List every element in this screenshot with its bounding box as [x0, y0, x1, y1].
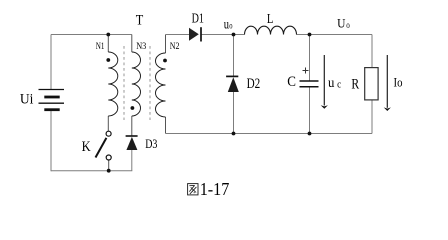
svg-text:D2: D2: [247, 75, 261, 92]
wire N1 top node to N3 top: [108, 34, 132, 36]
capacitor + sign: [303, 68, 309, 74]
diode D2 triangle: [228, 77, 239, 92]
svg-text:K: K: [82, 138, 91, 154]
battery Ui plate long top: [39, 89, 65, 91]
svg-text:C: C: [287, 73, 296, 89]
switch K blade: [96, 138, 107, 158]
wire N2 bottom to output rail: [165, 117, 167, 134]
svg-text:o: o: [229, 21, 232, 31]
diode D1 cathode bar: [200, 27, 202, 41]
N1 polarity dot: [106, 58, 110, 62]
svg-text:1-17: 1-17: [200, 179, 230, 199]
transformer core dashed line right: [149, 46, 151, 120]
capacitor C top plate: [300, 80, 319, 82]
wire D1 cathode to node uo and L: [201, 34, 245, 36]
svg-text:T: T: [136, 11, 144, 27]
N3 polarity dot: [131, 106, 135, 110]
wire output bottom rail: [166, 133, 373, 135]
wire N2 top to D1 anode: [166, 34, 190, 36]
caption glyph 图: [188, 184, 198, 195]
transformer T winding N1: [108, 52, 118, 116]
resistor R body: [365, 68, 378, 100]
diode D1 triangle: [189, 28, 199, 41]
svg-text:R: R: [351, 75, 359, 92]
junction node switch-rail: [107, 169, 111, 173]
svg-text:D1: D1: [192, 10, 204, 26]
junction node uo: [232, 33, 236, 37]
svg-text:U: U: [337, 16, 346, 31]
svg-text:N2: N2: [170, 41, 180, 52]
wire N1 bottom to switch: [107, 116, 109, 131]
wire left vertical lower (battery -): [50, 110, 52, 172]
Io arrow: [386, 55, 388, 108]
junction node C-rail: [308, 132, 312, 136]
svg-text:c: c: [337, 80, 341, 91]
wire bottom-left rail: [51, 170, 132, 172]
svg-text:o: o: [346, 20, 350, 30]
wire N3 bottom to D3 cathode: [131, 116, 133, 136]
wire D3 anode to rail: [131, 150, 133, 171]
svg-text:L: L: [267, 11, 273, 27]
wire N1 stub top: [107, 35, 109, 53]
uc arrow: [323, 55, 325, 106]
wire N2 stub top: [165, 35, 167, 54]
transformer core dashed line left: [123, 46, 125, 120]
transformer T winding N2: [156, 53, 166, 117]
svg-text:N1: N1: [96, 41, 105, 51]
switch K bottom contact: [106, 155, 111, 160]
battery Ui plate short: [44, 96, 59, 99]
svg-text:Ui: Ui: [20, 91, 34, 108]
wire top-left horizontal from battery to N1 top: [51, 34, 108, 36]
wire D2 anode to rail: [233, 92, 235, 134]
wire N3 stub top: [131, 35, 133, 53]
diode D3 cathode bar: [126, 135, 138, 137]
svg-text:u: u: [328, 74, 335, 90]
svg-text:D3: D3: [145, 138, 158, 151]
wire node uo down to D2 cathode: [233, 35, 235, 77]
junction node top-left (N1/N3 tap): [106, 33, 110, 37]
wire R bottom to rail: [371, 100, 373, 134]
wire C bottom plate to rail: [309, 87, 311, 134]
inductor L: [245, 26, 297, 34]
diode D3 triangle: [126, 137, 137, 150]
wire node down to C top plate: [309, 35, 311, 82]
svg-text:Io: Io: [394, 75, 403, 90]
wire right vertical to R top: [371, 35, 373, 68]
junction node D2-rail: [232, 132, 236, 136]
diode D2 cathode bar: [226, 75, 238, 77]
capacitor C bottom plate: [300, 86, 319, 88]
transformer T winding N3: [132, 52, 141, 116]
wire L to node C and right corner: [297, 34, 373, 36]
battery Ui plate short bottom: [44, 108, 59, 111]
battery Ui plate long: [39, 102, 65, 104]
wire switch bottom to rail: [108, 160, 110, 171]
wire left vertical upper (battery +): [50, 35, 52, 90]
junction node L-C: [308, 33, 312, 37]
switch K top contact: [106, 131, 111, 136]
N2 polarity dot: [163, 59, 167, 63]
svg-text:u: u: [224, 16, 229, 32]
svg-text:N3: N3: [136, 41, 147, 52]
